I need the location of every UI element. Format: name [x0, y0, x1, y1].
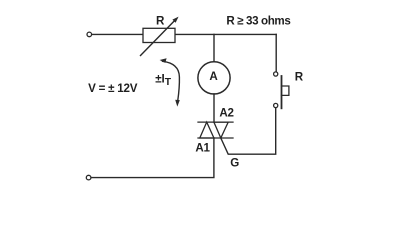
switch S1 top contact	[274, 72, 278, 76]
wire triac to bottom rail	[91, 138, 214, 178]
switch S1 button knob	[282, 86, 289, 95]
resistor R1 body	[143, 28, 175, 42]
svg-text:G: G	[230, 157, 239, 170]
svg-text:R: R	[156, 15, 165, 28]
switch S1 actuator bar	[281, 76, 283, 108]
triac Q1 bottom bar	[198, 137, 233, 139]
triac Q1 down triangle	[214, 122, 228, 138]
wire junction drop to ammeter	[213, 34, 215, 62]
svg-text:A2: A2	[219, 107, 233, 120]
triac Q1 top bar	[198, 121, 233, 123]
wire right vertical drop to switch	[275, 34, 277, 71]
svg-text:T: T	[165, 77, 172, 88]
resistor R1 adjust arrow	[141, 19, 176, 55]
switch S1 bottom contact	[274, 103, 278, 107]
svg-text:R ≥ 33 ohms: R ≥ 33 ohms	[226, 15, 290, 28]
svg-text:±I: ±I	[155, 72, 165, 85]
terminal (top-left input)	[87, 32, 92, 37]
terminal (bottom-left)	[86, 175, 91, 180]
svg-text:A: A	[209, 70, 218, 83]
svg-text:R: R	[295, 71, 304, 84]
wire ammeter to triac	[213, 94, 215, 122]
wire top horizontal	[92, 33, 276, 35]
triac Q1 up triangle	[200, 122, 214, 138]
svg-text:A1: A1	[195, 142, 210, 155]
svg-text:V = ± 12V: V = ± 12V	[88, 82, 138, 95]
wire gate to switch	[221, 108, 276, 154]
current direction curved arrow	[163, 61, 180, 100]
ammeter U1 circle	[198, 62, 230, 94]
